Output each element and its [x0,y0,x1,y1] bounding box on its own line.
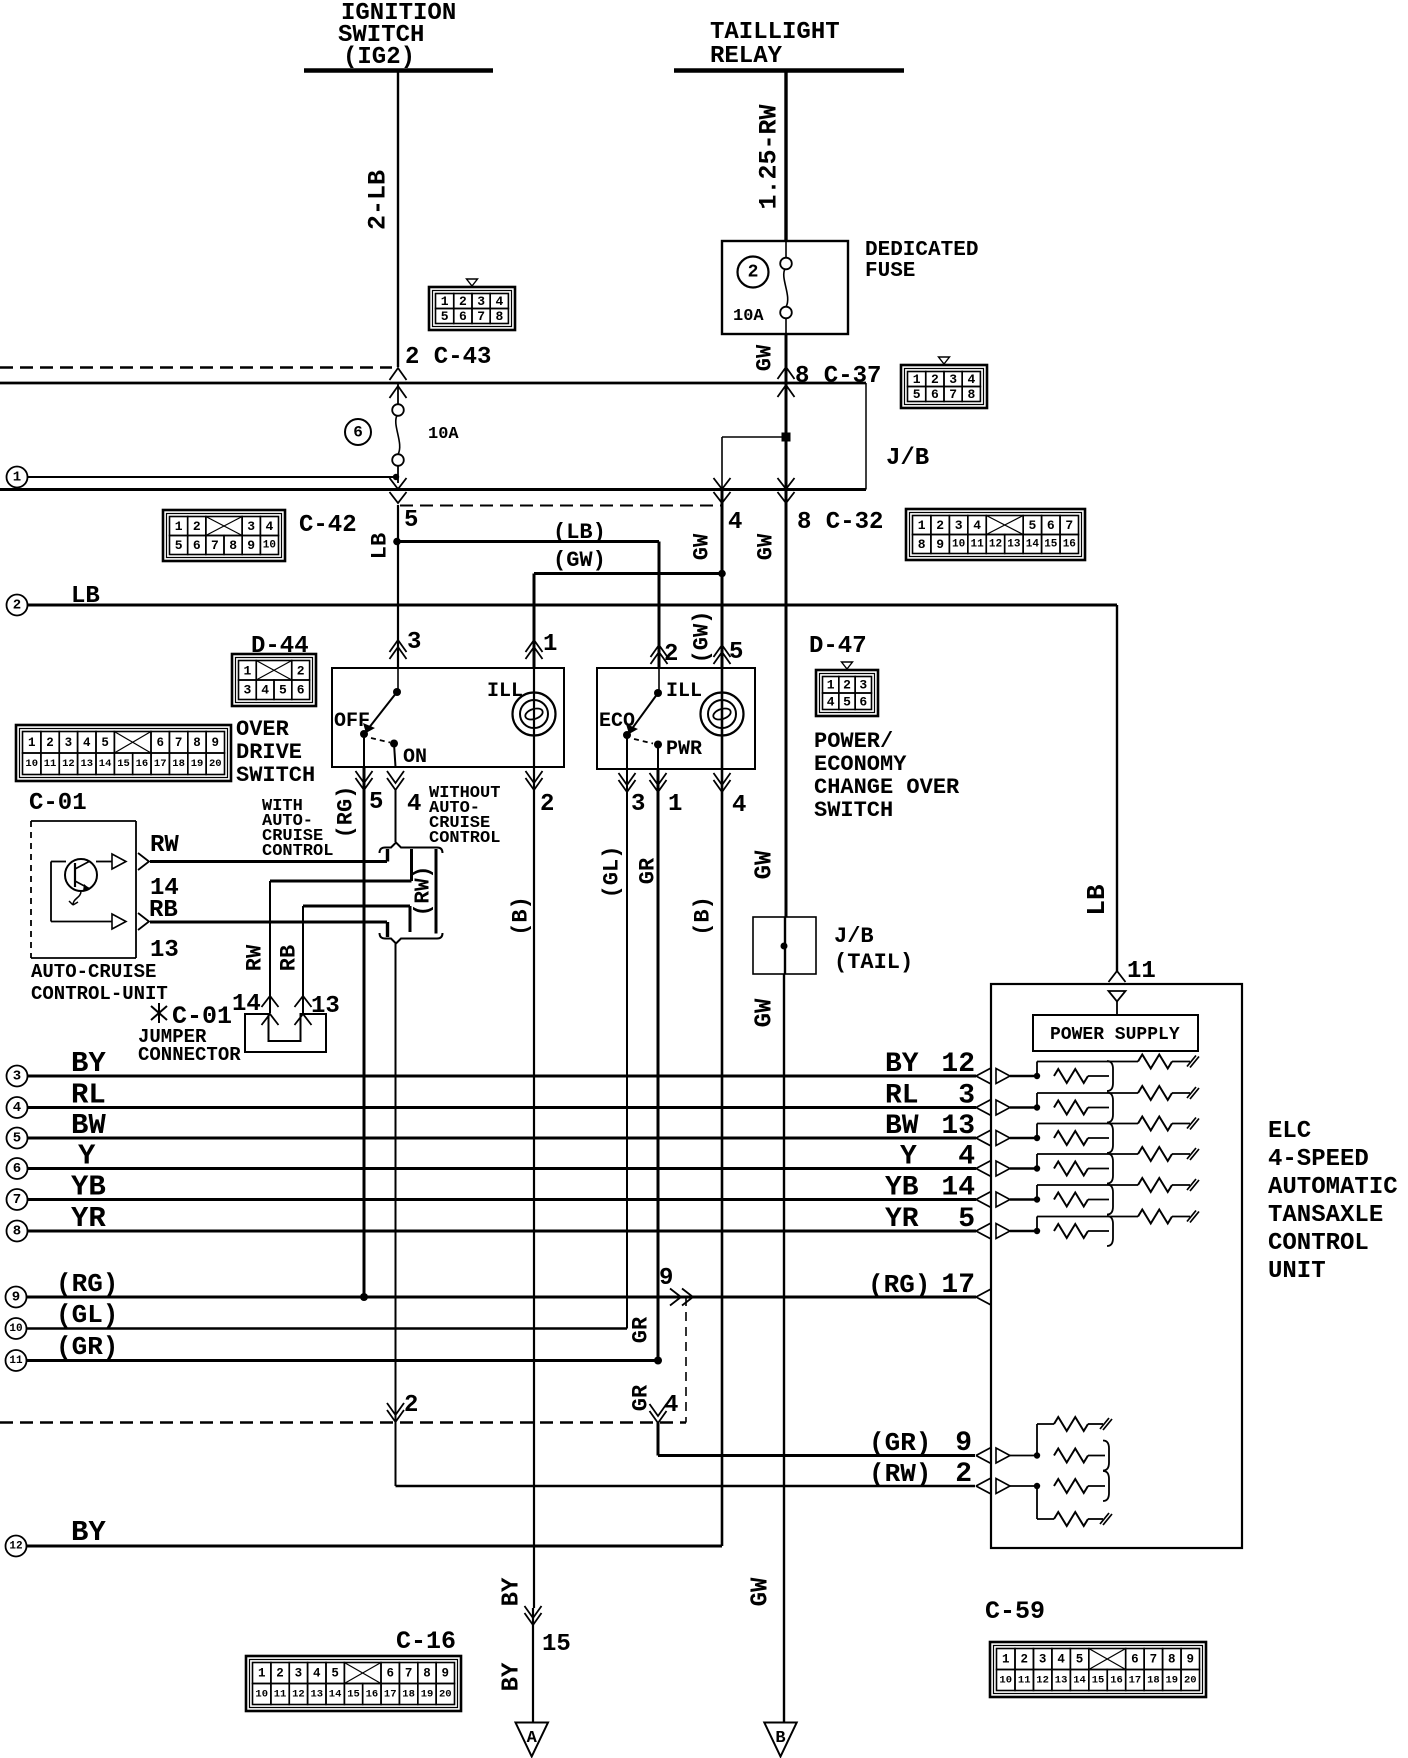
svg-text:12: 12 [941,1049,975,1080]
bus line C-42/C-32 (horizontal) [0,488,866,491]
resistor (pull) pin 13 [1054,1131,1088,1145]
svg-text:(GL): (GL) [600,846,625,899]
svg-text:6: 6 [1047,518,1055,533]
svg-text:4: 4 [732,792,746,819]
wire overdrive pin4 [394,744,396,768]
connector pin arrows at C-37 [778,367,795,379]
svg-text:UNIT: UNIT [1268,1258,1326,1285]
svg-text:17: 17 [154,758,167,770]
overdrive switch lever [397,668,399,692]
power/economy switch lever [658,668,660,693]
svg-text:9: 9 [212,736,220,750]
svg-text:GR: GR [629,1384,654,1411]
svg-text:YR: YR [71,1202,106,1235]
power/economy switch box [597,668,755,769]
node 12 circle [6,1536,27,1557]
dedicated fuse box [722,241,848,334]
connector arrows on overdrive pin4 wire at boundary [387,1410,404,1422]
svg-text:1: 1 [13,470,21,486]
svg-text:8: 8 [229,538,237,553]
svg-text:7: 7 [477,309,485,324]
svg-text:2: 2 [193,519,201,534]
svg-text:12: 12 [9,1541,22,1553]
wire power/economy pin3 (GL) [626,735,628,769]
junction inside J/B TAIL [781,943,788,950]
svg-text:D-44: D-44 [251,633,309,660]
svg-text:GW: GW [752,998,779,1027]
resistor (pull) pin 3 [1054,1101,1088,1115]
svg-text:POWER SUPPLY: POWER SUPPLY [1050,1025,1180,1045]
svg-text:5: 5 [441,309,449,324]
junction in J/B on GW wire [782,433,791,442]
svg-text:11: 11 [44,758,57,770]
wire Y from node 6 to control unit [28,1167,977,1170]
svg-text:2: 2 [843,678,851,693]
jumper bracket lower (connector half) [380,933,443,944]
svg-text:BY: BY [499,1662,526,1691]
svg-text:4: 4 [495,294,503,309]
bus line C-43/C-37 (horizontal) [0,382,866,385]
svg-text:7: 7 [13,1192,21,1208]
svg-text:2: 2 [955,1459,972,1490]
lamp ILL overdrive [533,668,535,767]
svg-text:4: 4 [265,519,273,534]
svg-text:(GL): (GL) [56,1300,118,1330]
svg-text:8: 8 [13,1224,21,1240]
auto-cruise unit internal wiring [51,861,66,863]
connector pin arrows power/economy pin 5 [714,645,731,657]
svg-text:9: 9 [442,1667,450,1681]
svg-text:7: 7 [1150,1653,1158,1667]
resistor (upper) pin 4 [1036,1154,1038,1169]
svg-text:FUSE: FUSE [865,260,915,283]
jumper bracket upper (connector half) [380,843,443,854]
connector pin arrows at C-42 pin 5 [390,478,407,489]
svg-text:2: 2 [936,518,944,533]
svg-text:5: 5 [369,789,383,816]
svg-text:3: 3 [247,519,255,534]
svg-text:7: 7 [175,736,183,750]
svg-text:CONTROL: CONTROL [1268,1230,1369,1257]
node 3 circle [7,1066,28,1087]
power supply input triangle pin [1109,991,1126,1002]
svg-text:5: 5 [1028,518,1036,533]
svg-text:3: 3 [631,791,645,818]
svg-text:CONTROL: CONTROL [262,842,333,861]
svg-text:6: 6 [459,309,467,324]
dashed harness boundary at C-43 [0,366,392,369]
resistor (upper) pin 13 [1036,1124,1038,1139]
wire GW through J/B TAIL down to connector B [784,917,786,974]
svg-text:15: 15 [1044,539,1058,551]
svg-text:10A: 10A [733,307,764,326]
svg-text:5: 5 [843,694,851,709]
junction (GW) branch on GW wire [718,570,726,578]
svg-text:J/B: J/B [834,924,874,949]
svg-text:6: 6 [13,1161,21,1177]
svg-text:C-01: C-01 [29,790,87,817]
svg-text:3: 3 [859,678,867,693]
wire GW from C-32 pin4 down to power/economy pin 5 [721,490,724,669]
svg-text:10: 10 [952,539,965,551]
svg-text:4: 4 [313,1667,321,1681]
transistor Q1 in auto-cruise unit [65,859,97,891]
svg-text:13: 13 [1055,1675,1068,1687]
connector pin arrows jumper pin 14 [262,996,279,1007]
wire RW to jumper connector pin 14 [269,881,271,1013]
svg-text:2: 2 [664,641,678,668]
wire overdrive pin5 (RG) [363,734,365,767]
svg-text:2: 2 [404,1392,418,1419]
svg-text:5: 5 [1076,1653,1084,1667]
connector pin arrows jumper pin 13 [295,996,312,1007]
svg-text:9: 9 [936,537,944,552]
resistor (upper) pin 14 [1036,1185,1038,1200]
svg-text:11: 11 [9,1355,23,1367]
svg-text:GR: GR [629,1316,654,1343]
svg-text:16: 16 [366,1689,379,1701]
svg-text:2: 2 [1020,1653,1028,1667]
junction (LB) branch [393,538,401,546]
svg-text:8: 8 [193,736,201,750]
wire (B) power/economy pin4 down to node 12 wire [721,769,724,1546]
junction (GR) wire / power-economy pin1 wire [654,1357,662,1365]
wire from overdrive pin4 to jumper bracket [395,790,397,842]
asterisk mark [151,1003,167,1023]
svg-text:15: 15 [117,758,130,770]
svg-text:14: 14 [99,758,112,770]
svg-text:BY: BY [499,1577,526,1606]
svg-text:4: 4 [83,736,91,750]
svg-text:4: 4 [728,509,742,536]
svg-text:ON: ON [403,746,427,769]
svg-text:YB: YB [885,1173,919,1204]
connector pin arrows overdrive pin 3 [390,640,407,652]
svg-text:20: 20 [209,758,222,770]
resistor (pull) pin 14 [1054,1193,1088,1207]
svg-text:(LB): (LB) [553,520,606,545]
resistor (upper) pin 3 [1036,1093,1038,1108]
svg-text:ECONOMY: ECONOMY [814,752,907,777]
svg-text:5: 5 [101,736,109,750]
connector arrow at pin 11 [1109,971,1126,982]
svg-text:1: 1 [543,631,557,658]
svg-text:12: 12 [1036,1675,1049,1687]
connector icon C-37 [901,365,987,408]
fuse number circle 2 [738,257,769,288]
svg-text:8: 8 [423,1667,431,1681]
node 5 circle [7,1128,28,1149]
jumper connector symbol [245,1014,326,1052]
connector pin arrows at pin 15 [525,1613,542,1625]
wire (GR) from node 11 [27,1359,659,1362]
node 9 circle [6,1287,27,1308]
node 8 circle [7,1221,28,1242]
svg-text:16: 16 [1063,539,1076,551]
svg-text:10: 10 [263,540,276,552]
svg-text:9: 9 [1187,1653,1195,1667]
wire (GW) branch to overdrive ILL [534,572,722,575]
svg-text:(GR): (GR) [869,1428,931,1458]
svg-text:5: 5 [279,683,287,698]
node 1 circle [7,467,28,488]
connector icon D-47 [816,670,878,716]
svg-text:3: 3 [1039,1653,1047,1667]
svg-text:3: 3 [243,683,251,698]
svg-text:4: 4 [1057,1653,1065,1667]
pin 14 of C-01 (triangle) [112,854,126,869]
wire LB from C-42 pin5 down [397,505,399,668]
svg-text:B: B [775,1729,785,1748]
svg-text:3: 3 [949,372,957,387]
svg-text:SWITCH: SWITCH [814,798,893,823]
svg-text:9: 9 [247,538,255,553]
svg-text:GW: GW [748,1577,775,1606]
svg-text:C-16: C-16 [396,1627,456,1656]
svg-text:(GW): (GW) [690,611,715,664]
svg-text:CONTROL: CONTROL [429,829,500,848]
svg-text:(RG): (RG) [334,786,359,839]
dashed branch from node 9 wire [685,1297,687,1423]
svg-text:8: 8 [1168,1653,1176,1667]
svg-text:4: 4 [958,1142,975,1173]
svg-text:8: 8 [495,309,503,324]
svg-text:4: 4 [973,518,981,533]
svg-text:3: 3 [958,1081,975,1112]
svg-text:14: 14 [941,1173,975,1204]
resistor (upper) pin 5 [1036,1217,1038,1232]
svg-text:13: 13 [1007,539,1021,551]
svg-text:8 C-37: 8 C-37 [795,363,881,390]
svg-text:CONNECTOR: CONNECTOR [138,1044,241,1066]
resistor (pull) pin 12 [1054,1069,1088,1083]
svg-text:BW: BW [71,1109,106,1142]
node 11 circle [6,1350,27,1371]
svg-text:(IG2): (IG2) [343,44,415,71]
svg-text:(RW): (RW) [869,1459,931,1489]
svg-text:5: 5 [13,1131,21,1147]
svg-text:YB: YB [71,1171,106,1204]
svg-text:19: 19 [421,1689,434,1701]
svg-text:TAILLIGHT: TAILLIGHT [710,19,840,46]
connector pin arrows at C-32 pin 4 [714,478,731,489]
svg-text:RW: RW [243,944,268,971]
wire LB bus from node 2 to control unit pin 11 [28,604,1118,607]
wire 2-LB ignition feed (vertical) [397,71,399,368]
wire RW from C-01 pin 14 [150,860,387,863]
resistor (upper) pin 9 [1036,1424,1038,1456]
POWER SUPPLY box [1033,1015,1198,1051]
svg-text:AUTOMATIC: AUTOMATIC [1268,1174,1398,1201]
svg-text:7: 7 [1065,518,1073,533]
wire (LB) branch to power/economy switch [397,540,659,543]
svg-text:(B): (B) [509,896,534,936]
svg-text:16: 16 [1110,1675,1123,1687]
svg-text:12: 12 [292,1689,305,1701]
connector pin arrows overdrive pin 2 [526,778,543,790]
svg-text:LB: LB [368,533,393,559]
junction fuse6/node1 [393,474,399,480]
resistor (pull) pin 2 [1054,1479,1088,1493]
wire YR from node 8 to control unit [28,1230,977,1233]
svg-text:BY: BY [71,1047,106,1080]
pin 13 of C-01 (triangle) [112,914,126,929]
wire RL from node 4 to control unit [28,1106,977,1109]
svg-text:Y: Y [78,1140,96,1173]
wire GW below dedicated fuse to C-37 [785,334,788,383]
svg-text:TANSAXLE: TANSAXLE [1268,1202,1383,1229]
svg-text:1: 1 [175,519,183,534]
svg-text:4: 4 [967,372,975,387]
wire BY overdrive pin2 down to connector A [533,767,535,1608]
svg-text:5: 5 [175,538,183,553]
svg-text:2-LB: 2-LB [364,170,393,230]
svg-text:20: 20 [1184,1675,1197,1687]
svg-text:RL: RL [885,1081,919,1112]
svg-text:8 C-32: 8 C-32 [797,509,883,536]
svg-text:DEDICATED: DEDICATED [865,239,978,262]
svg-text:17: 17 [941,1270,975,1301]
fuse number circle 6 [345,419,371,445]
wire RB to jumper connector pin 13 [302,906,304,1013]
bus bar IGNITION SWITCH (IG2) [304,68,493,73]
svg-text:OVER: OVER [236,717,290,742]
connector pin arrows overdrive pin 4 [387,778,404,790]
fuse element 6 (10A) [397,383,399,405]
resistor (pull) pin 5 [1054,1224,1088,1238]
svg-text:ILL: ILL [666,680,702,703]
connector arrows on GR wire at boundary [650,1411,667,1423]
wire (GL) from node 10 [27,1327,628,1330]
connector pin arrows overdrive pin 1 [526,640,543,652]
ELC control unit box [991,984,1242,1548]
svg-text:2: 2 [540,791,554,818]
wire J/B internal branch GW [722,436,786,438]
svg-text:15: 15 [1092,1675,1105,1687]
wire (RW) from jumper bracket down [395,944,397,1487]
jumper wire middle (auto-cruise RW) [410,849,413,881]
bus bar TAILLIGHT RELAY [674,68,904,73]
svg-text:BY: BY [885,1049,919,1080]
svg-text:(GW): (GW) [553,548,606,573]
svg-text:RB: RB [277,945,302,971]
svg-text:(TAIL): (TAIL) [834,950,913,975]
svg-text:15: 15 [542,1631,571,1658]
svg-text:2: 2 [46,736,54,750]
wire 1.25-RW taillight feed (vertical) [784,71,787,242]
svg-text:18: 18 [1147,1675,1160,1687]
svg-text:BY: BY [71,1516,106,1549]
jumper wire (RW) bypass [435,849,438,934]
svg-text:6: 6 [1131,1653,1139,1667]
svg-text:2 C-43: 2 C-43 [405,344,491,371]
connector icon 20-pin (overdrive switch harness) [16,725,231,781]
svg-text:7: 7 [405,1667,413,1681]
connector pin arrows power/economy pin 3 [619,780,636,792]
wire GR power/economy pin1 down [657,769,660,1361]
svg-text:11: 11 [1127,958,1156,985]
wire from node 1 (horizontal) [28,476,396,478]
svg-text:GW: GW [753,344,778,371]
svg-text:2: 2 [276,1667,284,1681]
wire (RG) overdrive pin5 down to node 9 wire [363,767,366,1297]
svg-text:5: 5 [958,1204,975,1235]
svg-text:1: 1 [441,294,449,309]
svg-text:11: 11 [274,1689,287,1701]
svg-text:19: 19 [1165,1675,1178,1687]
svg-text:6: 6 [297,683,305,698]
svg-text:15: 15 [347,1689,360,1701]
svg-text:1: 1 [258,1667,266,1681]
connector icon C-42 [163,510,285,561]
svg-text:2: 2 [297,663,305,678]
svg-text:3: 3 [477,294,485,309]
connector pin arrows at C-32 pin 8 [778,478,795,489]
svg-text:(RW): (RW) [413,866,436,916]
fuse element (dedicated fuse) [785,241,787,258]
svg-text:8: 8 [918,537,926,552]
svg-text:4: 4 [261,683,269,698]
svg-text:AUTO-CRUISE: AUTO-CRUISE [31,961,156,983]
svg-text:(B): (B) [691,896,716,936]
connector icon C-59 [990,1642,1206,1697]
J/B box outline (right edge) [865,383,867,490]
jumper wire lower (auto-cruise RB) [409,906,412,932]
svg-text:J/B: J/B [886,445,929,472]
overdrive switch dashed throw to ON [371,738,390,743]
node 6 circle [7,1158,28,1179]
svg-text:4: 4 [664,1392,678,1419]
svg-text:PWR: PWR [666,738,702,761]
wire (GL) power/economy pin3 down to node 10 wire [626,769,628,1329]
branch arrows on (RG) wire [670,1289,681,1306]
ground connector A (triangle) [516,1723,549,1757]
resistor (lower) pin 2 [1036,1486,1038,1519]
overdrive switch box [332,668,564,767]
svg-text:RL: RL [71,1079,106,1112]
svg-text:Y: Y [900,1142,917,1173]
node 7 circle [7,1189,28,1210]
svg-text:7: 7 [949,387,957,402]
svg-text:GW: GW [754,533,779,560]
svg-text:1: 1 [827,678,835,693]
J/B (TAIL) box [753,917,816,974]
svg-text:4: 4 [13,1100,21,1116]
wire YB from node 7 to control unit [28,1198,977,1201]
connector pin arrows power/economy pin 2 [651,645,668,657]
svg-text:5: 5 [404,507,418,534]
svg-text:6: 6 [931,387,939,402]
svg-text:ELC: ELC [1268,1118,1311,1145]
svg-text:4: 4 [407,791,421,818]
svg-text:4-SPEED: 4-SPEED [1268,1146,1369,1173]
svg-text:11: 11 [970,539,984,551]
svg-text:6: 6 [859,694,867,709]
svg-text:12: 12 [62,758,75,770]
svg-text:2: 2 [459,294,467,309]
node 4 circle [7,1097,28,1118]
svg-text:RELAY: RELAY [710,43,783,70]
svg-text:BW: BW [885,1111,919,1142]
connector pin arrows at C-43 [390,368,407,380]
wire BY from node 12 to power/economy pin4 wire [27,1545,723,1548]
svg-text:SWITCH: SWITCH [236,763,315,788]
svg-text:17: 17 [384,1689,397,1701]
wire BW from node 5 to control unit [28,1137,977,1140]
wire GW from C-37 to C-32 (vertical) [785,383,788,490]
svg-text:5: 5 [913,387,921,402]
connector pin arrows power/economy pin 4 [714,780,731,792]
